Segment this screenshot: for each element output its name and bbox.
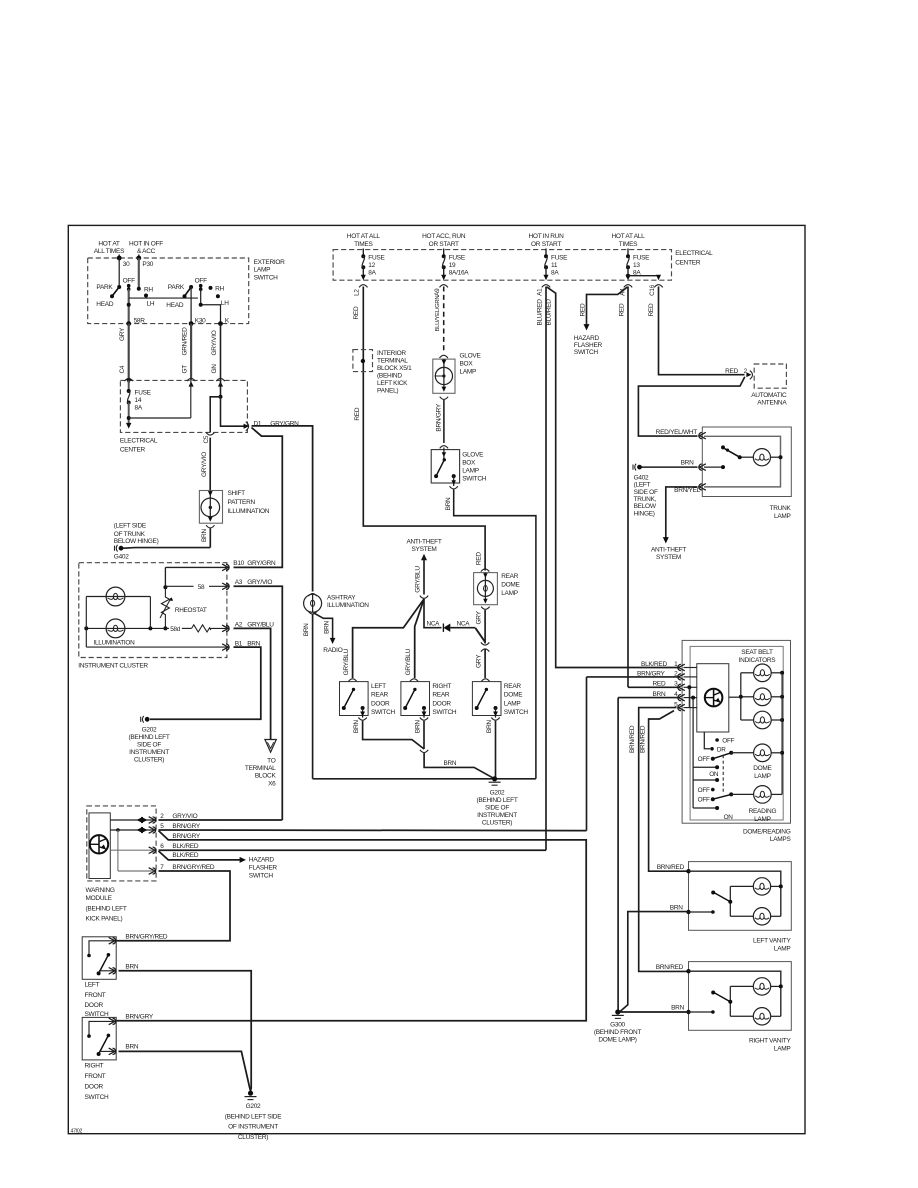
svg-text:C4: C4 <box>119 365 126 373</box>
svg-text:OR START: OR START <box>429 241 459 248</box>
svg-text:BRN/RED: BRN/RED <box>656 964 684 971</box>
svg-text:DOME: DOME <box>753 765 772 772</box>
svg-text:58R: 58R <box>134 318 146 325</box>
svg-text:C16: C16 <box>649 284 656 296</box>
svg-text:LAMP: LAMP <box>504 700 521 707</box>
svg-text:SWITCH: SWITCH <box>574 349 599 356</box>
svg-text:LAMPS: LAMPS <box>770 836 792 843</box>
svg-text:BRN: BRN <box>125 964 138 971</box>
svg-text:58d: 58d <box>170 626 181 633</box>
svg-text:GN: GN <box>211 364 218 374</box>
svg-text:HOT AT ALL: HOT AT ALL <box>347 233 381 240</box>
svg-text:RED: RED <box>580 303 587 316</box>
svg-text:OR START: OR START <box>531 241 561 248</box>
svg-text:ILLUMINATION: ILLUMINATION <box>228 508 270 515</box>
svg-text:ELECTRICAL: ELECTRICAL <box>675 250 713 257</box>
svg-text:CLUSTER): CLUSTER) <box>238 1134 268 1141</box>
svg-text:OFF: OFF <box>698 787 710 794</box>
svg-text:(BEHIND: (BEHIND <box>377 372 402 379</box>
svg-text:SYSTEM: SYSTEM <box>656 554 681 561</box>
svg-text:FUSE: FUSE <box>449 255 466 262</box>
svg-text:LH: LH <box>147 301 155 308</box>
svg-text:BLK/RED: BLK/RED <box>172 843 198 850</box>
svg-text:TIMES: TIMES <box>619 241 638 248</box>
svg-text:GLOVE: GLOVE <box>460 352 482 359</box>
svg-text:BRN/GRY: BRN/GRY <box>172 823 200 830</box>
svg-text:LAMP: LAMP <box>462 467 479 474</box>
svg-text:DOOR: DOOR <box>85 1002 104 1009</box>
svg-text:BRN: BRN <box>125 1043 138 1050</box>
svg-text:LAMP: LAMP <box>774 513 791 520</box>
svg-text:GRY/GRN: GRY/GRN <box>247 560 276 567</box>
svg-text:RH: RH <box>215 286 224 293</box>
svg-text:LEFT KICK: LEFT KICK <box>377 380 408 387</box>
svg-text:GRY/VIO: GRY/VIO <box>211 330 218 355</box>
svg-text:CLUSTER): CLUSTER) <box>482 820 512 827</box>
svg-text:RH: RH <box>144 286 153 293</box>
svg-text:TERMINAL: TERMINAL <box>245 765 276 772</box>
svg-text:CLUSTER): CLUSTER) <box>134 757 164 764</box>
svg-text:FLASHER: FLASHER <box>249 865 278 872</box>
svg-text:BOX: BOX <box>460 360 474 367</box>
svg-text:DOME LAMP): DOME LAMP) <box>598 1037 636 1044</box>
svg-text:19: 19 <box>449 262 456 269</box>
svg-text:A3: A3 <box>235 579 243 586</box>
svg-text:OFF: OFF <box>698 756 710 763</box>
svg-text:X6: X6 <box>268 780 276 787</box>
svg-text:FUSE: FUSE <box>368 255 385 262</box>
svg-text:30: 30 <box>123 261 130 268</box>
svg-text:BRN: BRN <box>201 529 208 542</box>
svg-text:ON: ON <box>709 771 719 778</box>
svg-text:BRN/GRY: BRN/GRY <box>435 403 442 431</box>
svg-text:OF TRUNK: OF TRUNK <box>114 531 146 538</box>
svg-text:READING: READING <box>749 808 777 815</box>
svg-text:FRONT: FRONT <box>85 992 106 999</box>
svg-text:RIGHT: RIGHT <box>432 683 451 690</box>
svg-text:8A/16A: 8A/16A <box>449 270 470 277</box>
svg-text:OF INSTRUMENT: OF INSTRUMENT <box>228 1124 278 1131</box>
svg-text:REAR: REAR <box>371 692 389 699</box>
svg-text:TO: TO <box>267 758 276 765</box>
svg-text:LAMP: LAMP <box>754 816 771 823</box>
svg-text:SIDE OF: SIDE OF <box>634 489 658 496</box>
svg-text:FLASHER: FLASHER <box>574 342 603 349</box>
svg-text:BLK/RED: BLK/RED <box>172 852 198 859</box>
svg-text:LEFT: LEFT <box>85 982 100 989</box>
svg-text:14: 14 <box>135 397 142 404</box>
svg-text:TERMINAL: TERMINAL <box>377 357 408 364</box>
svg-text:NCA: NCA <box>427 620 441 627</box>
svg-text:K30: K30 <box>195 318 206 325</box>
svg-text:FRONT: FRONT <box>85 1073 106 1080</box>
svg-text:LAMP: LAMP <box>460 368 477 375</box>
svg-text:& ACC: & ACC <box>137 248 156 255</box>
svg-text:(LEFT: (LEFT <box>634 482 651 489</box>
svg-text:OFF: OFF <box>698 797 710 804</box>
svg-text:HAZARD: HAZARD <box>249 856 275 863</box>
svg-text:BRN/GRY: BRN/GRY <box>172 833 200 840</box>
svg-text:FUSE: FUSE <box>551 255 568 262</box>
svg-text:INSTRUMENT CLUSTER: INSTRUMENT CLUSTER <box>78 662 148 669</box>
svg-text:GRY/BLU: GRY/BLU <box>405 648 412 675</box>
svg-text:BRN: BRN <box>670 904 683 911</box>
svg-text:DOOR: DOOR <box>432 700 451 707</box>
svg-text:BRN/RED: BRN/RED <box>629 725 636 753</box>
svg-text:G300: G300 <box>610 1021 625 1028</box>
svg-text:A9: A9 <box>434 288 441 296</box>
svg-text:HAZARD: HAZARD <box>574 335 600 342</box>
svg-text:BRN/GRY/RED: BRN/GRY/RED <box>172 864 215 871</box>
svg-text:HEAD: HEAD <box>166 302 184 309</box>
svg-text:LH: LH <box>221 300 229 307</box>
svg-text:LAMP: LAMP <box>774 1046 791 1053</box>
svg-text:ELECTRICAL: ELECTRICAL <box>120 437 158 444</box>
svg-text:BELOW HINGE): BELOW HINGE) <box>114 538 159 545</box>
svg-text:EXTERIOR: EXTERIOR <box>254 259 286 266</box>
svg-text:BRN: BRN <box>486 720 493 733</box>
svg-text:(BEHIND LEFT: (BEHIND LEFT <box>86 905 127 912</box>
svg-text:58: 58 <box>198 584 205 591</box>
svg-text:BRN: BRN <box>681 459 694 466</box>
svg-text:BLU/RED: BLU/RED <box>536 299 543 326</box>
svg-text:SHIFT: SHIFT <box>228 490 246 497</box>
svg-text:PARK: PARK <box>96 284 113 291</box>
svg-text:BELOW: BELOW <box>634 503 657 510</box>
svg-text:FUSE: FUSE <box>135 390 152 397</box>
svg-text:INTERIOR: INTERIOR <box>377 350 406 357</box>
svg-text:MODULE: MODULE <box>86 895 113 902</box>
svg-text:INSTRUMENT: INSTRUMENT <box>477 812 517 819</box>
svg-text:RIGHT: RIGHT <box>85 1063 104 1070</box>
svg-text:LAMP: LAMP <box>501 590 518 597</box>
svg-text:SWITCH: SWITCH <box>371 709 396 716</box>
svg-text:GRY/VIO: GRY/VIO <box>172 813 197 820</box>
svg-text:C5: C5 <box>203 435 210 443</box>
svg-text:BRN/RED: BRN/RED <box>657 864 685 871</box>
svg-text:ILLUMINATION: ILLUMINATION <box>94 639 136 646</box>
svg-text:BLU/YEL/GRN: BLU/YEL/GRN <box>435 296 441 332</box>
svg-text:BRN: BRN <box>415 720 422 733</box>
svg-text:BRN/YEL: BRN/YEL <box>674 487 701 494</box>
svg-text:P30: P30 <box>142 261 153 268</box>
svg-text:INSTRUMENT: INSTRUMENT <box>129 749 169 756</box>
svg-text:ANTI-THEFT: ANTI-THEFT <box>651 547 686 554</box>
svg-text:LAMP: LAMP <box>774 946 791 953</box>
svg-text:ANTENNA: ANTENNA <box>757 400 787 407</box>
svg-text:DOME: DOME <box>504 692 523 699</box>
svg-text:BRN: BRN <box>671 1005 684 1012</box>
svg-text:11: 11 <box>551 262 558 269</box>
svg-text:G402: G402 <box>634 474 649 481</box>
svg-text:PATTERN: PATTERN <box>228 499 256 506</box>
svg-text:DOME: DOME <box>501 582 520 589</box>
svg-text:RED: RED <box>618 303 625 316</box>
svg-text:CENTER: CENTER <box>120 447 146 454</box>
svg-text:GLOVE: GLOVE <box>462 451 484 458</box>
svg-text:REAR: REAR <box>432 692 450 699</box>
svg-text:B10: B10 <box>233 560 244 567</box>
svg-text:SWITCH: SWITCH <box>254 274 279 281</box>
svg-text:13: 13 <box>633 262 640 269</box>
svg-text:GRY/BLU: GRY/BLU <box>247 621 274 628</box>
svg-text:(BEHIND LEFT: (BEHIND LEFT <box>128 734 169 741</box>
svg-text:LAMP: LAMP <box>754 773 771 780</box>
svg-text:SWITCH: SWITCH <box>432 709 457 716</box>
svg-text:REAR: REAR <box>504 683 522 690</box>
svg-text:A2: A2 <box>235 621 243 628</box>
svg-text:HOT AT: HOT AT <box>98 241 120 248</box>
svg-text:OFF: OFF <box>195 277 207 284</box>
svg-text:GRY/BLU: GRY/BLU <box>414 566 421 593</box>
svg-text:TRUNK: TRUNK <box>770 505 792 512</box>
svg-text:A1: A1 <box>536 288 543 296</box>
svg-text:BLOCK: BLOCK <box>255 773 277 780</box>
svg-text:G402: G402 <box>114 554 129 561</box>
svg-text:SWITCH: SWITCH <box>504 709 529 716</box>
svg-text:RADIO: RADIO <box>323 647 342 654</box>
svg-text:RED: RED <box>354 407 361 420</box>
svg-text:PARK: PARK <box>168 284 185 291</box>
svg-text:SYSTEM: SYSTEM <box>411 546 436 553</box>
svg-text:8A: 8A <box>368 270 376 277</box>
svg-text:GRY: GRY <box>476 610 483 624</box>
svg-text:RED: RED <box>476 552 483 565</box>
svg-text:INDICATORS: INDICATORS <box>739 657 777 664</box>
svg-text:(BEHIND FRONT: (BEHIND FRONT <box>594 1029 642 1036</box>
svg-text:GRY: GRY <box>119 327 126 341</box>
svg-text:HINGE): HINGE) <box>634 510 655 517</box>
svg-text:HOT ACC, RUN: HOT ACC, RUN <box>422 233 466 240</box>
svg-text:ALL TIMES: ALL TIMES <box>94 248 125 255</box>
svg-text:RHEOSTAT: RHEOSTAT <box>175 607 207 614</box>
svg-text:WARNING: WARNING <box>86 887 115 894</box>
svg-text:KICK PANEL): KICK PANEL) <box>86 916 123 923</box>
svg-text:TRUNK,: TRUNK, <box>634 496 657 503</box>
svg-text:G202: G202 <box>246 1103 261 1110</box>
svg-text:RED: RED <box>725 368 738 375</box>
svg-text:DOOR: DOOR <box>85 1084 104 1091</box>
svg-text:LEFT: LEFT <box>371 683 386 690</box>
svg-text:SIDE OF: SIDE OF <box>137 742 161 749</box>
svg-text:SIDE OF: SIDE OF <box>485 805 509 812</box>
svg-text:BLOCK X5/1: BLOCK X5/1 <box>377 365 412 372</box>
svg-text:LAMP: LAMP <box>254 267 271 274</box>
svg-text:L2: L2 <box>354 289 361 296</box>
svg-text:SWITCH: SWITCH <box>462 475 487 482</box>
svg-text:ILLUMINATION: ILLUMINATION <box>327 602 369 609</box>
svg-text:GRY/VIO: GRY/VIO <box>201 452 208 477</box>
svg-text:47I02: 47I02 <box>71 1129 83 1135</box>
svg-text:BRN: BRN <box>303 623 310 636</box>
svg-text:RED: RED <box>353 306 360 319</box>
svg-text:LEFT VANITY: LEFT VANITY <box>753 938 791 945</box>
svg-text:(BEHIND LEFT: (BEHIND LEFT <box>476 797 517 804</box>
svg-text:G202: G202 <box>142 726 157 733</box>
svg-text:GRN/RED: GRN/RED <box>181 327 188 356</box>
svg-text:ANTI-THEFT: ANTI-THEFT <box>406 538 441 545</box>
svg-text:BRN/GRY: BRN/GRY <box>125 1013 153 1020</box>
svg-text:DOME/READING: DOME/READING <box>743 828 791 835</box>
svg-text:SWITCH: SWITCH <box>249 873 274 880</box>
svg-text:DR: DR <box>717 746 726 753</box>
svg-text:BRN/RED: BRN/RED <box>639 725 646 753</box>
svg-text:GT: GT <box>181 365 188 374</box>
svg-text:FUSE: FUSE <box>633 255 650 262</box>
svg-text:BRN: BRN <box>444 760 457 767</box>
svg-text:ASHTRAY: ASHTRAY <box>327 595 356 602</box>
svg-text:GRY/BLU: GRY/BLU <box>343 648 350 675</box>
svg-text:RIGHT VANITY: RIGHT VANITY <box>749 1038 791 1045</box>
svg-text:PANEL): PANEL) <box>377 387 398 394</box>
svg-text:8A: 8A <box>135 405 143 412</box>
svg-text:BOX: BOX <box>462 459 476 466</box>
svg-text:BRN: BRN <box>353 720 360 733</box>
svg-text:(LEFT SIDE: (LEFT SIDE <box>114 522 147 529</box>
svg-text:DOOR: DOOR <box>371 700 390 707</box>
svg-text:OFF: OFF <box>722 737 734 744</box>
svg-text:HEAD: HEAD <box>96 301 114 308</box>
svg-text:BLK/RED: BLK/RED <box>641 661 667 668</box>
svg-text:OFF: OFF <box>123 277 135 284</box>
svg-text:HOT IN OFF: HOT IN OFF <box>129 241 163 248</box>
svg-text:TIMES: TIMES <box>354 241 373 248</box>
svg-text:HOT IN RUN: HOT IN RUN <box>529 233 565 240</box>
svg-text:HOT AT ALL: HOT AT ALL <box>612 233 646 240</box>
svg-text:CENTER: CENTER <box>675 259 701 266</box>
svg-text:BRN/GRY/RED: BRN/GRY/RED <box>125 934 168 941</box>
svg-text:(BEHIND LEFT SIDE: (BEHIND LEFT SIDE <box>225 1113 282 1120</box>
svg-text:BRN: BRN <box>323 620 330 633</box>
svg-text:NCA: NCA <box>457 620 471 627</box>
svg-text:AUTOMATIC: AUTOMATIC <box>751 392 787 399</box>
svg-text:SEAT BELT: SEAT BELT <box>741 649 773 656</box>
svg-text:ON: ON <box>724 814 734 821</box>
svg-text:RED: RED <box>648 303 655 316</box>
svg-text:BRN: BRN <box>445 497 452 510</box>
svg-text:RED/YEL/WHT: RED/YEL/WHT <box>656 429 698 436</box>
svg-text:GRY/VIO: GRY/VIO <box>247 579 272 586</box>
svg-text:GRY: GRY <box>475 654 482 668</box>
svg-text:SWITCH: SWITCH <box>85 1094 110 1101</box>
svg-text:G202: G202 <box>490 789 505 796</box>
svg-text:REAR: REAR <box>501 573 519 580</box>
svg-text:12: 12 <box>368 262 375 269</box>
svg-text:8A: 8A <box>551 270 559 277</box>
